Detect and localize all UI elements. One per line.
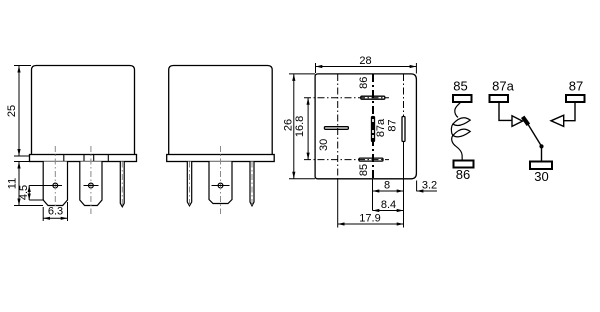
svg-text:87a: 87a: [375, 118, 387, 137]
svg-text:30: 30: [534, 169, 548, 184]
svg-text:8: 8: [384, 180, 390, 192]
svg-text:16.8: 16.8: [294, 116, 306, 137]
svg-text:26: 26: [283, 119, 295, 131]
svg-text:8.4: 8.4: [381, 199, 396, 211]
svg-text:17.9: 17.9: [359, 213, 380, 225]
svg-text:86: 86: [358, 77, 370, 89]
svg-text:30: 30: [318, 139, 330, 151]
svg-text:87a: 87a: [492, 79, 514, 94]
svg-text:4.5: 4.5: [18, 185, 30, 200]
svg-text:86: 86: [456, 167, 470, 182]
svg-text:85: 85: [453, 79, 467, 94]
svg-text:85: 85: [358, 164, 370, 176]
svg-text:6.3: 6.3: [48, 206, 63, 218]
svg-text:11: 11: [7, 178, 19, 189]
svg-text:3.2: 3.2: [422, 180, 437, 192]
svg-text:25: 25: [6, 105, 18, 117]
svg-text:28: 28: [359, 55, 371, 67]
svg-text:87: 87: [569, 79, 583, 94]
svg-text:87: 87: [386, 119, 398, 131]
